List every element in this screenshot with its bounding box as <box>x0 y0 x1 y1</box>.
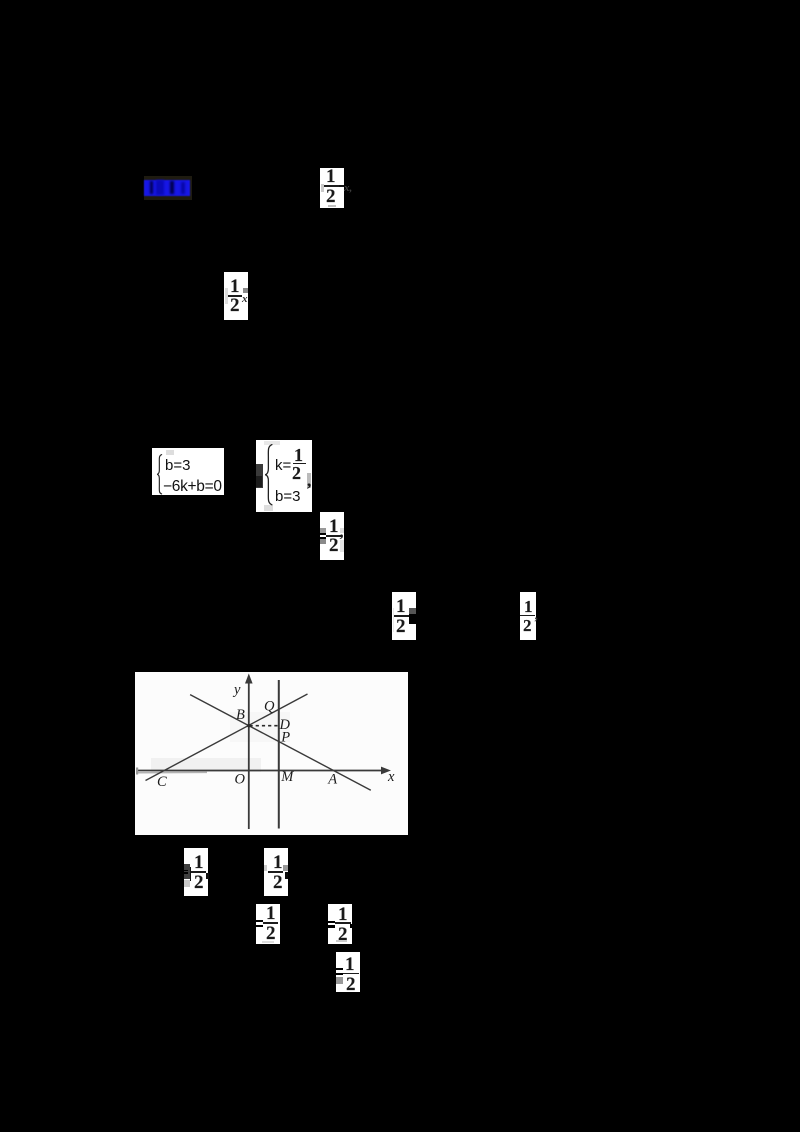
svg-text:O: O <box>235 771 246 787</box>
svg-text:A: A <box>327 771 337 787</box>
svg-text:C: C <box>157 774 167 790</box>
svg-text:y: y <box>232 682 241 698</box>
svg-text:B: B <box>236 707 245 723</box>
svg-text:x: x <box>387 769 395 785</box>
svg-text:Q: Q <box>264 698 275 714</box>
svg-text:M: M <box>280 769 294 785</box>
svg-text:P: P <box>280 729 290 745</box>
